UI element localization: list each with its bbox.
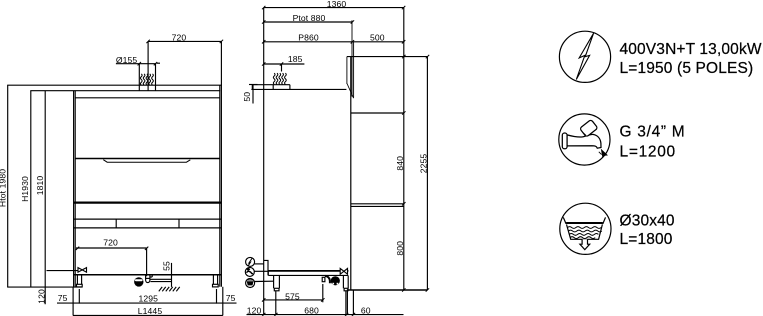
svg-text:400V3N+T 13,00kW: 400V3N+T 13,00kW: [620, 41, 762, 58]
svg-text:Htot 1980: Htot 1980: [0, 169, 8, 207]
svg-text:185: 185: [288, 54, 303, 64]
svg-text:1360: 1360: [327, 0, 347, 9]
svg-text:L=1200: L=1200: [620, 144, 676, 161]
svg-text:1295: 1295: [139, 293, 159, 303]
svg-text:G 3/4” M: G 3/4” M: [620, 123, 686, 140]
svg-text:120: 120: [247, 305, 262, 315]
svg-text:H1930: H1930: [20, 176, 30, 202]
svg-text:2255: 2255: [418, 154, 428, 174]
svg-text:L=1800: L=1800: [620, 231, 673, 248]
svg-text:Ptot 880: Ptot 880: [293, 13, 326, 23]
svg-text:800: 800: [395, 241, 405, 256]
svg-text:50: 50: [242, 92, 252, 102]
svg-text:Ø155: Ø155: [116, 55, 138, 65]
svg-text:75: 75: [58, 293, 68, 303]
svg-text:720: 720: [172, 33, 187, 43]
svg-text:840: 840: [395, 156, 405, 171]
svg-text:55: 55: [162, 261, 172, 271]
svg-text:1810: 1810: [35, 176, 45, 196]
svg-text:680: 680: [304, 305, 319, 315]
svg-text:575: 575: [285, 291, 300, 301]
svg-text:L=1950 (5 POLES): L=1950 (5 POLES): [620, 60, 754, 77]
svg-text:P860: P860: [298, 33, 319, 43]
svg-text:75: 75: [226, 293, 236, 303]
svg-text:60: 60: [361, 305, 371, 315]
svg-text:500: 500: [370, 32, 385, 42]
svg-text:720: 720: [103, 238, 118, 248]
svg-text:120: 120: [37, 289, 47, 304]
svg-text:Ø30x40: Ø30x40: [620, 212, 675, 229]
svg-text:L1445: L1445: [138, 306, 163, 316]
